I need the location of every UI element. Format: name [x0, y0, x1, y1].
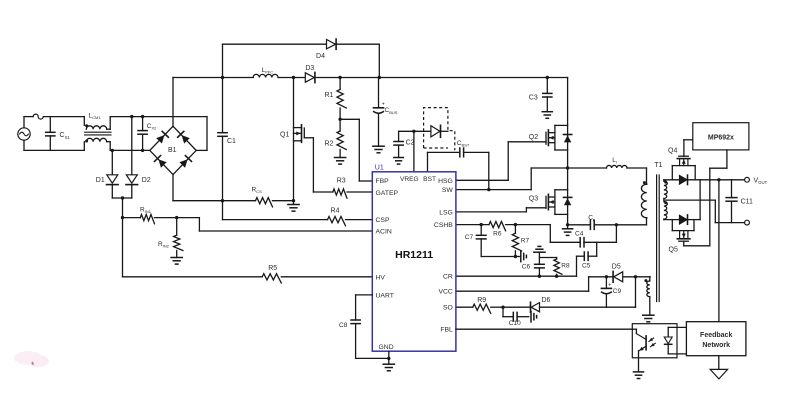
ground RIN2 — [171, 258, 182, 265]
svg-text:HV: HV — [376, 274, 386, 281]
diode D6 — [531, 297, 551, 312]
wire output sense — [718, 180, 720, 322]
svg-text:R1: R1 — [325, 92, 334, 99]
feedback network box — [686, 322, 746, 356]
resistor RIN2 — [158, 218, 183, 258]
node SW CBST — [487, 188, 490, 191]
wire output minus — [715, 222, 744, 224]
svg-text:R9: R9 — [477, 297, 486, 304]
svg-text:GATEP: GATEP — [376, 190, 399, 197]
diode D4 — [223, 39, 380, 77]
transformer T1 primary — [641, 162, 662, 218]
svg-text:BST: BST — [423, 176, 436, 183]
wire SO — [456, 306, 473, 308]
svg-text:ACIN: ACIN — [376, 228, 392, 235]
wire led to feedback — [668, 327, 686, 354]
node CX2 top — [141, 115, 144, 118]
ac source V1 — [18, 117, 30, 151]
svg-text:+: + — [608, 283, 611, 289]
mosfet Q1 — [280, 78, 313, 201]
diode D1 — [96, 150, 118, 198]
bridge rectifier B1 — [150, 126, 196, 174]
svg-text:Q2: Q2 — [529, 134, 538, 141]
svg-text:FBL: FBL — [440, 326, 453, 333]
svg-text:Q1: Q1 — [280, 131, 289, 138]
wire BST — [428, 152, 460, 171]
wire VCC — [456, 277, 589, 291]
svg-text:R7: R7 — [521, 238, 530, 245]
svg-text:C3: C3 — [529, 94, 538, 101]
ground C3 — [542, 112, 552, 119]
wire CR — [456, 275, 577, 277]
node C1 bottom — [221, 199, 224, 202]
capacitor C11 — [726, 180, 753, 223]
wire C6 R8 — [539, 257, 556, 259]
wire R7 C7 join — [481, 256, 515, 258]
capacitor Cr — [568, 214, 617, 229]
node Q1 source — [292, 199, 295, 202]
node SO riser — [634, 275, 637, 278]
node C9 top — [605, 275, 608, 278]
wire ACIN route — [177, 218, 373, 231]
resistor R1 — [325, 78, 347, 120]
resistor R8 — [554, 258, 570, 277]
mosfet Q5 — [669, 220, 695, 254]
svg-text:D6: D6 — [542, 297, 551, 304]
wire C8 to GND — [356, 357, 389, 359]
controller MP692x — [693, 123, 749, 150]
optocoupler transistor — [632, 329, 646, 372]
capacitor C9 — [601, 277, 621, 307]
wire HSG — [456, 142, 546, 181]
wire node X — [615, 225, 617, 243]
svg-text:MP692x: MP692x — [708, 134, 734, 141]
wire LSG — [456, 208, 546, 212]
terminal Vout minus — [745, 220, 750, 225]
resistor RIN1 — [123, 206, 177, 223]
svg-text:D1: D1 — [96, 177, 105, 184]
svg-text:C8: C8 — [339, 322, 348, 329]
mosfet Q2 — [529, 125, 568, 150]
svg-text:C9: C9 — [613, 288, 622, 295]
svg-text:R8: R8 — [561, 263, 570, 270]
ground Q1 source — [288, 201, 299, 211]
rectifier diode DQ5 — [680, 215, 688, 224]
capacitor C8 — [339, 320, 360, 358]
ground opto emitter — [633, 372, 643, 379]
svg-text:D2: D2 — [142, 177, 151, 184]
capacitor C5 — [577, 242, 597, 276]
node D4 out — [378, 76, 381, 79]
resistor RCS — [252, 186, 273, 207]
wire SW — [456, 168, 568, 190]
svg-text:R5: R5 — [268, 265, 277, 272]
wire ac top rail — [24, 116, 84, 118]
wire D1-D2 join — [112, 196, 132, 217]
node Q1 drain — [292, 76, 295, 79]
capacitor C7 — [465, 225, 486, 257]
node D1 tap — [111, 149, 114, 152]
body diode Q2 — [564, 135, 572, 143]
wire half-bridge rail — [567, 78, 569, 225]
resistor R2 — [325, 119, 347, 157]
node RIN2 tap — [175, 216, 178, 219]
node R1 top — [338, 76, 341, 79]
wire bridge dc- down — [172, 175, 174, 201]
capacitor C4 — [575, 231, 616, 247]
ground C2 — [394, 158, 404, 165]
body diode Q3 — [564, 197, 572, 205]
node output plus — [717, 178, 720, 181]
wire VREG — [399, 130, 431, 172]
ground sideways CSHB — [515, 251, 526, 261]
svg-text:Q5: Q5 — [669, 246, 678, 253]
wire bridge ac right — [196, 117, 207, 151]
svg-text:Q3: Q3 — [529, 196, 538, 203]
capacitor C1 — [218, 78, 236, 201]
svg-text:GND: GND — [379, 344, 394, 351]
transformer T1 aux winding — [644, 277, 649, 315]
ground feedback — [710, 356, 727, 379]
node GND join — [387, 357, 390, 360]
svg-text:C10: C10 — [509, 320, 521, 327]
svg-text:B1: B1 — [168, 147, 177, 154]
ground CBUS — [373, 146, 384, 153]
optocoupler box — [632, 324, 677, 358]
node C1 top — [221, 76, 224, 79]
wire primary top — [646, 168, 648, 184]
diode D2 — [126, 117, 151, 198]
svg-text:HSG: HSG — [438, 178, 453, 185]
ic U1 HR1211 — [372, 165, 456, 352]
wire CSP route — [223, 201, 328, 220]
svg-text:CSP: CSP — [376, 217, 390, 224]
wire SO right — [540, 277, 636, 307]
svg-text:Network: Network — [702, 342, 730, 349]
ground Q3 source — [563, 225, 573, 236]
watermark — [14, 351, 49, 367]
wire primary return — [616, 218, 646, 225]
ground IC GND — [383, 364, 394, 371]
node SW — [566, 166, 569, 169]
svg-text:C4: C4 — [575, 231, 584, 238]
optocoupler led arrows — [649, 338, 656, 347]
resistor R9 — [473, 297, 503, 314]
inductor Lr — [568, 157, 647, 168]
svg-text:UART: UART — [376, 292, 394, 299]
wire HV drop — [122, 218, 124, 277]
optocoupler led — [664, 327, 672, 354]
rectifier diode DQ4 — [680, 175, 688, 184]
node Q3 source — [566, 223, 569, 226]
diode D5 — [612, 264, 623, 283]
resistor R3 — [313, 178, 372, 199]
wire ac bottom rail — [24, 149, 84, 151]
svg-text:R2: R2 — [325, 140, 334, 147]
wire MP692x to Q5 gate — [684, 150, 727, 246]
wire dc rail — [173, 77, 568, 79]
node R7 bottom — [514, 255, 517, 258]
capacitor C3 — [529, 78, 552, 112]
svg-text:C5: C5 — [582, 263, 591, 270]
node D2 tap — [130, 115, 133, 118]
wire C4 route — [550, 225, 580, 243]
wire UART — [356, 295, 373, 320]
mosfet Q3 — [529, 190, 568, 215]
wire center tap — [664, 200, 715, 222]
transformer T1 secondary 2 — [664, 201, 667, 219]
dashed option box — [424, 108, 455, 151]
capacitor CBST — [457, 140, 489, 190]
wire ac rail to bridge — [110, 116, 207, 118]
inductor LPFC — [253, 67, 278, 78]
transformer T1 secondary 1 — [664, 180, 667, 200]
svg-text:SW: SW — [442, 187, 454, 194]
node R7 top — [514, 223, 517, 226]
svg-text:D5: D5 — [612, 264, 621, 271]
wire FBL — [456, 328, 632, 330]
wire output minus leg — [664, 180, 700, 220]
node C3 top — [546, 76, 549, 79]
svg-text:T1: T1 — [654, 162, 662, 169]
node C10 tap — [501, 306, 504, 309]
ground R2 — [335, 158, 346, 165]
svg-text:C7: C7 — [465, 234, 474, 241]
terminal Vout plus — [745, 177, 768, 185]
svg-text:D4: D4 — [316, 53, 325, 60]
svg-text:U1: U1 — [375, 165, 384, 172]
node HV divider — [121, 216, 124, 219]
common-mode choke LCM1 — [84, 113, 111, 151]
wire aux line — [589, 276, 650, 278]
wire CSHB — [456, 224, 489, 226]
capacitor C10 — [503, 307, 529, 327]
svg-text:C6: C6 — [522, 263, 531, 270]
capacitor CX2 — [138, 117, 157, 151]
svg-text:Q4: Q4 — [668, 147, 677, 154]
node C7 top — [480, 223, 483, 226]
svg-text:FBP: FBP — [376, 178, 390, 185]
svg-text:VCC: VCC — [438, 289, 452, 296]
transformer core — [657, 175, 660, 302]
capacitor CX1 — [46, 117, 71, 151]
svg-text:R6: R6 — [493, 231, 502, 238]
svg-text:R4: R4 — [331, 208, 340, 215]
node Cr out — [615, 223, 618, 226]
svg-text:SO: SO — [443, 305, 453, 312]
node C6 bottom — [538, 275, 541, 278]
ground sideways C10 — [531, 312, 537, 322]
wire FBP — [340, 119, 372, 181]
wire bridge dc+ up — [172, 78, 174, 127]
svg-text:CR: CR — [443, 274, 453, 281]
wire output plus — [664, 179, 745, 181]
node CX2 bottom — [141, 149, 144, 152]
fuse F1 — [33, 114, 43, 119]
resistor R5 — [123, 265, 373, 283]
svg-text:HR1211: HR1211 — [395, 249, 433, 261]
resistor R6 — [489, 222, 550, 238]
svg-text:CSHB: CSHB — [434, 222, 453, 229]
capacitor C6 — [522, 246, 545, 276]
svg-text:Feedback: Feedback — [700, 332, 732, 339]
bootstrap diode — [431, 125, 448, 137]
svg-text:D3: D3 — [305, 65, 314, 72]
wire bottom rail to bridge — [110, 149, 150, 151]
svg-text:C11: C11 — [741, 199, 753, 206]
node R1 R2 — [338, 118, 341, 121]
capacitor CBUS — [374, 78, 398, 147]
wire GND pin — [388, 351, 390, 364]
svg-text:LSG: LSG — [439, 209, 453, 216]
svg-text:C1: C1 — [227, 138, 236, 145]
mosfet Q4 — [668, 140, 695, 180]
svg-text:VREG: VREG — [400, 176, 419, 183]
diode D3 — [305, 65, 315, 82]
resistor R7 — [512, 225, 529, 257]
node R8 bottom — [555, 275, 558, 278]
capacitor C2 — [394, 131, 415, 157]
wire negative rail — [173, 200, 294, 202]
wire SO to D6 — [503, 306, 530, 308]
ground aux — [643, 315, 654, 322]
resistor R4 — [328, 208, 373, 226]
svg-text:R3: R3 — [337, 178, 346, 185]
